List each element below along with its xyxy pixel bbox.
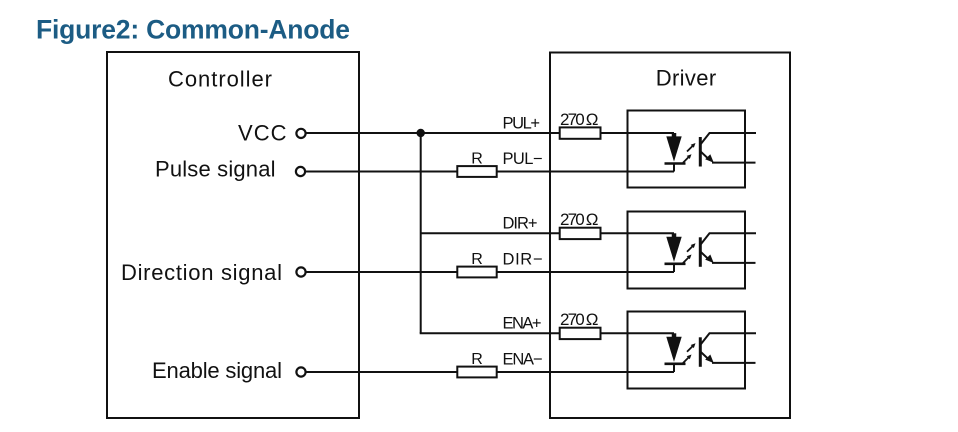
light arrow 2 U2 (683, 257, 689, 263)
phototransistor Q2 base bar (699, 237, 702, 266)
svg-text:Direction signal: Direction signal (121, 260, 282, 285)
LED triangle U2 (666, 237, 681, 262)
svg-text:DIR+: DIR+ (503, 215, 538, 233)
LED anode stub U3 (672, 333, 677, 338)
light arrow 1 U3 (687, 346, 693, 352)
svg-text:ENA−: ENA− (503, 350, 543, 368)
resistor R row DIR (457, 267, 496, 278)
terminal Enable signal (296, 367, 305, 376)
svg-text:270 Ω: 270 Ω (560, 310, 599, 329)
phototransistor Q2 collector (700, 233, 756, 245)
terminal VCC (296, 129, 305, 138)
wire LED cathode down U1 (673, 164, 675, 172)
wire emitter out U3 (712, 362, 756, 364)
phototransistor Q3 emitter arrowhead (705, 355, 714, 364)
wire bus to DIR+ (421, 232, 674, 234)
svg-text:ENA+: ENA+ (503, 315, 542, 333)
phototransistor Q3 emitter (700, 352, 708, 359)
terminal Pulse signal (296, 167, 305, 176)
LED triangle U3 (666, 337, 681, 362)
LED anode stub U2 (672, 233, 677, 238)
svg-text:Figure2: Common-Anode: Figure2: Common-Anode (36, 14, 350, 44)
LED triangle U1 (666, 136, 681, 161)
wire emitter out U2 (712, 262, 756, 264)
phototransistor Q2 emitter (700, 252, 708, 259)
svg-text:Enable signal: Enable signal (152, 358, 282, 383)
svg-text:R: R (471, 151, 483, 168)
phototransistor Q1 collector (700, 133, 756, 145)
wire Direction signal to DIR- (306, 271, 674, 273)
optocoupler U2 box (628, 212, 746, 289)
LED cathode bar U2 (665, 262, 686, 265)
phototransistor Q1 emitter arrowhead (705, 154, 714, 163)
svg-text:DIR−: DIR− (503, 250, 543, 268)
svg-text:VCC: VCC (238, 121, 287, 146)
svg-text:PUL−: PUL− (503, 150, 543, 168)
resistor 270ohm row DIR (560, 228, 601, 239)
svg-text:Controller: Controller (168, 66, 272, 91)
svg-text:270 Ω: 270 Ω (560, 210, 599, 229)
LED cathode bar U3 (665, 362, 686, 365)
wire bus to ENA+ (420, 332, 674, 334)
resistor R row PUL (457, 166, 496, 177)
phototransistor Q1 base bar (699, 137, 702, 167)
svg-text:PUL+: PUL+ (503, 114, 541, 132)
svg-text:R: R (471, 251, 483, 268)
light arrow 1 U2 (687, 246, 693, 252)
optocoupler U3 box (628, 312, 746, 389)
junction on VCC line (417, 129, 425, 137)
wire LED cathode down U2 (673, 264, 675, 272)
resistor R row ENA (457, 367, 496, 378)
light arrow 1 U1 (687, 145, 693, 151)
LED cathode bar U1 (665, 162, 686, 165)
wire Pulse signal to PUL- (305, 171, 674, 173)
resistor 270ohm row ENA (560, 328, 601, 339)
phototransistor Q3 collector (700, 333, 756, 345)
svg-text:Driver: Driver (656, 65, 717, 90)
wire vertical VCC bus (420, 133, 422, 333)
wire Enable signal to ENA- (306, 371, 674, 373)
wire emitter out U1 (712, 162, 756, 164)
wire VCC to PUL+ (306, 132, 674, 134)
phototransistor Q1 emitter (700, 151, 708, 158)
light arrow 2 U3 (683, 357, 689, 363)
svg-text:Pulse signal: Pulse signal (155, 157, 276, 182)
phototransistor Q2 emitter arrowhead (705, 255, 714, 264)
svg-text:R: R (471, 351, 483, 368)
driver box (550, 53, 790, 419)
wire LED cathode down U3 (673, 364, 675, 372)
svg-text:270 Ω: 270 Ω (560, 110, 599, 129)
phototransistor Q3 base bar (699, 337, 702, 367)
LED anode stub U1 (672, 133, 677, 138)
optocoupler U1 box (628, 111, 746, 188)
terminal Direction signal (296, 267, 305, 276)
light arrow 2 U1 (683, 156, 689, 162)
controller box (107, 52, 359, 418)
resistor 270ohm row PUL (560, 127, 601, 138)
